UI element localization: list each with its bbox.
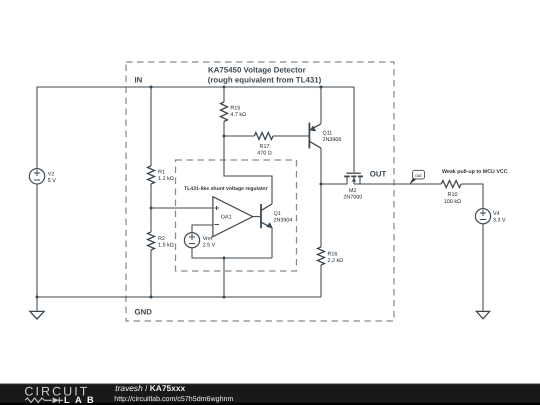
svg-text:4.7 kΩ: 4.7 kΩ <box>230 112 246 118</box>
svg-text:1.5 kΩ: 1.5 kΩ <box>158 243 174 249</box>
svg-text:470 Ω: 470 Ω <box>257 150 272 156</box>
svg-text:2N7000: 2N7000 <box>343 195 362 201</box>
svg-text:R2: R2 <box>158 236 165 242</box>
svg-text:Q1: Q1 <box>274 211 281 217</box>
svg-text:IN: IN <box>135 76 143 85</box>
svg-text:2N3904: 2N3904 <box>274 218 293 224</box>
svg-text:V4: V4 <box>493 211 500 217</box>
svg-text:R10: R10 <box>448 192 458 198</box>
svg-text:100 kΩ: 100 kΩ <box>444 199 461 205</box>
svg-text:V2: V2 <box>48 171 55 177</box>
svg-text:5 V: 5 V <box>48 178 56 184</box>
svg-text:TL431-like shunt voltage regul: TL431-like shunt voltage regulator <box>184 186 268 192</box>
svg-text:R1: R1 <box>158 170 165 176</box>
svg-text:R16: R16 <box>328 251 338 257</box>
svg-text:travesh / KA75xxx: travesh / KA75xxx <box>115 383 185 393</box>
svg-text:Weak pull-up to MCU VCC: Weak pull-up to MCU VCC <box>442 169 508 175</box>
svg-text:1.2 kΩ: 1.2 kΩ <box>158 176 174 182</box>
svg-text:LAB: LAB <box>64 395 99 405</box>
svg-text:OUT: OUT <box>370 170 387 179</box>
svg-text:3.3 V: 3.3 V <box>493 218 506 224</box>
svg-text:out: out <box>415 173 422 178</box>
svg-text:GND: GND <box>135 308 153 317</box>
svg-text:M2: M2 <box>349 188 357 194</box>
svg-text:R17: R17 <box>260 144 270 150</box>
svg-text:OA1: OA1 <box>221 215 232 221</box>
svg-text:2.2 kΩ: 2.2 kΩ <box>328 258 344 264</box>
svg-text:2N3906: 2N3906 <box>323 137 342 143</box>
svg-text:Q11: Q11 <box>323 131 333 137</box>
svg-text:(rough equivalent from TL431): (rough equivalent from TL431) <box>208 75 322 84</box>
svg-text:R15: R15 <box>230 106 240 112</box>
svg-text:Vref: Vref <box>203 236 213 242</box>
svg-text:KA75450 Voltage Detector: KA75450 Voltage Detector <box>208 65 306 74</box>
svg-text:http://circuitlab.com/c57h5dm6: http://circuitlab.com/c57h5dm6wghnm <box>114 395 233 403</box>
svg-text:2.5 V: 2.5 V <box>203 242 216 248</box>
